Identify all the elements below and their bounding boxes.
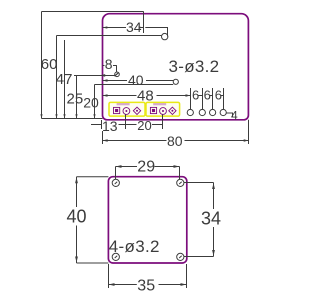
svg-text:40: 40 <box>128 72 144 88</box>
dim 40 arrows <box>75 177 78 183</box>
dim 80 arrows <box>103 139 108 141</box>
mount hole BR <box>177 253 184 260</box>
terminal block 1 <box>109 102 145 116</box>
terminal block 2 <box>146 102 180 116</box>
dim line 25 vertical <box>76 76 78 119</box>
leader from terminal 1 circle <box>125 115 127 130</box>
terminal 2 diamond pin <box>169 107 176 114</box>
dim line 13-20 <box>91 124 102 126</box>
ext line 25 top <box>74 75 115 77</box>
ext line left down to 80 <box>102 131 104 144</box>
terminal 1 square pin <box>114 107 120 113</box>
hole top (3.2) <box>162 33 168 39</box>
terminal 2 circle pin <box>160 108 167 115</box>
plate outline bottom view <box>108 177 186 263</box>
6-6-6 dim line stubs <box>198 95 223 97</box>
dim 29 line <box>116 166 138 168</box>
dim 40: line right <box>146 80 173 82</box>
terminal 2 square pin <box>150 107 156 113</box>
dim 34 right: ext lines <box>184 182 214 184</box>
dim 35 line <box>109 284 137 286</box>
dim line 20 vertical <box>94 85 96 119</box>
dim line 47 vertical <box>56 36 58 119</box>
ext line top 60 <box>42 11 144 13</box>
svg-text:20: 20 <box>137 118 151 133</box>
dim 35 arrows <box>109 283 115 286</box>
hole 8 small <box>115 72 120 77</box>
svg-text:80: 80 <box>167 133 183 149</box>
holes bottom row <box>187 109 226 115</box>
mount hole TL <box>112 179 119 186</box>
hole 40 <box>173 79 178 84</box>
ext tick left below board <box>101 120 103 129</box>
svg-text:35: 35 <box>137 278 155 295</box>
dim 40 left vertical <box>76 177 78 207</box>
dim line 80 <box>103 140 167 142</box>
dim line 60 vertical <box>41 12 43 119</box>
terminal 1 diamond pin <box>133 107 140 114</box>
dim 29: ext lines <box>115 167 117 180</box>
dim 34 tick vertical <box>143 11 145 33</box>
svg-text:29: 29 <box>137 159 155 176</box>
mount hole BL <box>112 253 119 260</box>
dim 34 arrows <box>212 183 215 189</box>
ext line bottom left dims <box>42 118 103 120</box>
ext line 47 top <box>57 35 162 37</box>
mount hole TR <box>177 179 184 186</box>
dim 34 right vertical <box>213 183 215 210</box>
dim 40 left: ext lines <box>77 176 109 178</box>
svg-text:3-ø3.2: 3-ø3.2 <box>169 57 220 76</box>
svg-text:47: 47 <box>56 71 73 88</box>
dim 34 arrows <box>103 26 108 28</box>
dim 40: line left <box>103 80 128 82</box>
svg-text:20: 20 <box>83 95 99 111</box>
leader from terminal 2 circle <box>162 115 164 130</box>
svg-text:6: 6 <box>192 88 199 103</box>
svg-text:4: 4 <box>231 109 238 123</box>
dim 8 ext down <box>116 66 118 72</box>
svg-text:4-ø3.2: 4-ø3.2 <box>109 237 160 256</box>
hole row ext lines <box>191 88 224 109</box>
dim 8 line <box>103 65 105 67</box>
ext line right down to 80 <box>248 120 250 144</box>
leader to top hole <box>145 28 167 37</box>
dim line aux vertical <box>64 40 66 119</box>
svg-text:6: 6 <box>215 88 222 103</box>
dim 8 arrow at hole <box>115 72 119 76</box>
svg-text:6: 6 <box>204 88 211 103</box>
dim 4 elbow <box>226 113 232 118</box>
dim 40 arrow <box>103 79 108 81</box>
dim 34 top: line <box>103 27 127 29</box>
svg-text:25: 25 <box>67 91 84 108</box>
svg-text:34: 34 <box>126 19 142 35</box>
dim 8 outside arrow <box>100 74 105 77</box>
dim 35: ext lines <box>108 264 110 288</box>
terminal 1 circle pin <box>123 108 130 115</box>
svg-text:34: 34 <box>201 209 221 229</box>
dim 48 line <box>103 95 137 97</box>
svg-text:40: 40 <box>67 207 87 227</box>
svg-text:13: 13 <box>102 118 118 134</box>
dim 48 arrows <box>103 94 108 96</box>
board outline top view <box>103 14 249 120</box>
dim 29 arrows <box>116 165 122 168</box>
svg-text:8: 8 <box>105 56 113 72</box>
bottom arrowheads <box>40 114 95 118</box>
ext line 20 top <box>95 84 174 86</box>
